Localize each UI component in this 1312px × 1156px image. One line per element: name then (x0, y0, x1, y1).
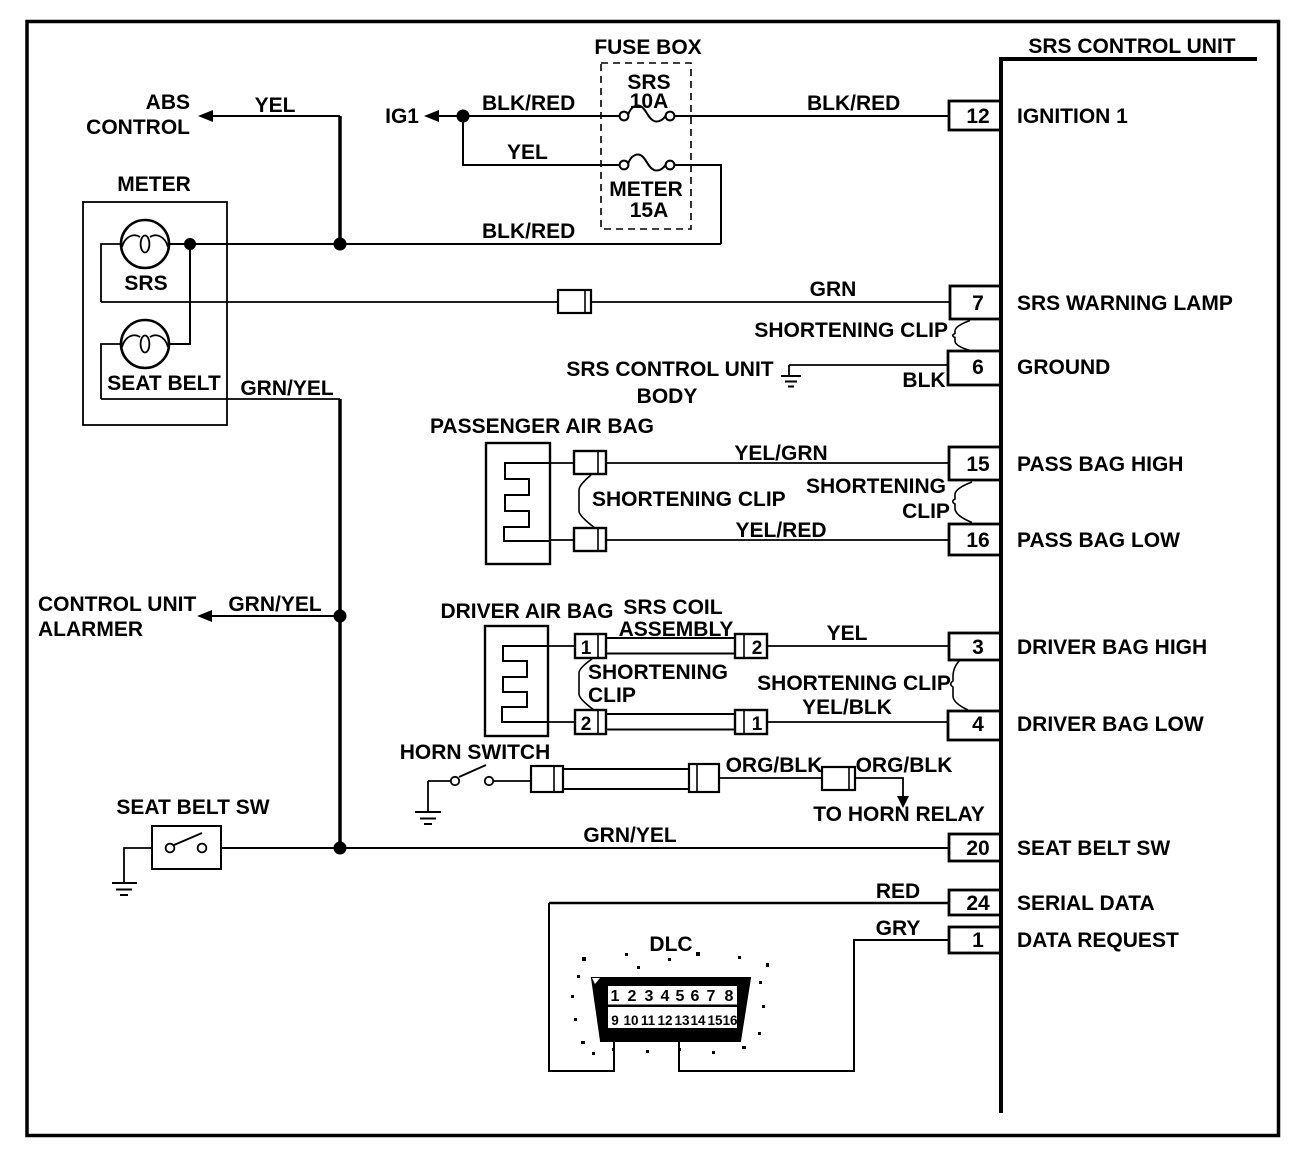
svg-text:YEL/GRN: YEL/GRN (734, 442, 827, 465)
connector on GRN wire (558, 290, 591, 313)
connector horn cable left (531, 766, 563, 792)
shortening clip pin15-pin16 (953, 482, 972, 523)
horn switch contacts (428, 765, 531, 785)
svg-text:20: 20 (966, 837, 989, 860)
svg-text:YEL: YEL (507, 141, 548, 164)
pin 7 SRS WARNING LAMP (950, 286, 1233, 319)
pin 3 DRIVER BAG HIGH (949, 633, 1207, 660)
svg-text:BLK/RED: BLK/RED (482, 92, 575, 115)
wire driver bag low (548, 721, 575, 723)
svg-text:METER: METER (117, 173, 191, 196)
svg-text:DRIVER AIR BAG: DRIVER AIR BAG (440, 600, 613, 623)
wire YEL/GRN to pin 15 (550, 462, 949, 464)
svg-text:PASSENGER AIR BAG: PASSENGER AIR BAG (430, 415, 654, 438)
fuse METER 15A (609, 155, 683, 222)
svg-text:GRN/YEL: GRN/YEL (583, 824, 677, 847)
svg-text:PASS BAG LOW: PASS BAG LOW (1017, 529, 1180, 552)
svg-text:SERIAL DATA: SERIAL DATA (1017, 892, 1155, 915)
connector 1 driver bag high (575, 634, 606, 659)
svg-text:CLIP: CLIP (902, 500, 950, 523)
svg-text:YEL: YEL (255, 94, 296, 117)
svg-text:GROUND: GROUND (1017, 356, 1110, 379)
svg-text:SRS: SRS (124, 272, 167, 295)
arrow to alarmer (197, 610, 212, 622)
junction IG1 (457, 110, 470, 123)
svg-text:7: 7 (707, 988, 716, 1005)
wire GRN/YEL to alarmer (210, 615, 340, 617)
svg-text:10: 10 (623, 1013, 638, 1028)
shortening clip passenger (579, 475, 595, 528)
svg-text:6: 6 (972, 356, 984, 379)
svg-text:5: 5 (676, 988, 685, 1005)
svg-text:IGNITION 1: IGNITION 1 (1017, 105, 1128, 128)
svg-text:15: 15 (966, 453, 990, 476)
wire GRN/YEL to pin 20 (221, 847, 949, 849)
svg-text:12: 12 (657, 1013, 672, 1028)
junction YEL drop (334, 238, 347, 251)
svg-text:CONTROL UNIT: CONTROL UNIT (38, 593, 196, 616)
SRS coil cable low (606, 714, 735, 730)
svg-text:SHORTENING CLIP: SHORTENING CLIP (754, 319, 948, 342)
wire YEL to pin 3 (767, 645, 949, 647)
scan speckles around DLC (571, 952, 769, 1055)
pin 6 GROUND (948, 351, 1110, 385)
svg-text:SRS WARNING LAMP: SRS WARNING LAMP (1017, 292, 1233, 315)
svg-text:SHORTENING: SHORTENING (806, 475, 946, 498)
svg-text:HORN SWITCH: HORN SWITCH (400, 741, 551, 764)
svg-text:DRIVER BAG HIGH: DRIVER BAG HIGH (1017, 636, 1207, 659)
wire GRN/YEL trunk vertical (338, 399, 342, 848)
wire SEAT BELT lamp left leg (101, 344, 121, 399)
driver air bag squib (502, 646, 548, 722)
passenger air bag housing (486, 443, 550, 564)
junction meter lamps (184, 238, 196, 250)
arrow to IG1 (424, 110, 439, 122)
svg-text:6: 6 (691, 988, 700, 1005)
svg-text:DATA REQUEST: DATA REQUEST (1017, 929, 1179, 952)
svg-text:1: 1 (972, 929, 984, 952)
connector 1 coil low (735, 710, 767, 735)
svg-text:12: 12 (966, 105, 989, 128)
svg-text:CONTROL: CONTROL (86, 116, 190, 139)
svg-text:8: 8 (725, 988, 734, 1005)
pin 16 PASS BAG LOW (949, 524, 1180, 555)
wire ORG/BLK to horn relay (855, 778, 903, 799)
wire BLK/RED bus (meter to fuse corner) (169, 243, 721, 245)
wire BLK/RED junction to SRS fuse (463, 115, 620, 117)
svg-text:SEAT BELT: SEAT BELT (107, 372, 221, 395)
connector pass bag high (574, 451, 606, 474)
driver air bag housing (485, 626, 548, 736)
wire METER fuse to BLK/RED bus (674, 165, 721, 244)
DLC connector (592, 978, 750, 1041)
wire IG1 to junction (437, 115, 458, 117)
svg-text:3: 3 (972, 636, 984, 659)
svg-text:BLK: BLK (902, 369, 945, 392)
svg-text:ORG/BLK: ORG/BLK (856, 754, 953, 777)
SRS coil cable horn (563, 769, 689, 789)
svg-text:14: 14 (690, 1013, 706, 1028)
svg-text:SRS COIL: SRS COIL (623, 596, 722, 619)
svg-text:SEAT BELT SW: SEAT BELT SW (116, 796, 269, 819)
pin 4 DRIVER BAG LOW (948, 711, 1204, 740)
shortening clip driver (579, 659, 594, 710)
svg-text:TO HORN RELAY: TO HORN RELAY (813, 803, 985, 826)
svg-text:DRIVER BAG LOW: DRIVER BAG LOW (1017, 713, 1204, 736)
svg-text:16: 16 (722, 1013, 738, 1028)
svg-text:BLK/RED: BLK/RED (807, 92, 900, 115)
ground horn switch (415, 781, 441, 824)
connector horn cable right (689, 764, 719, 792)
svg-text:GRY: GRY (876, 917, 921, 940)
svg-text:11: 11 (641, 1013, 656, 1028)
wire RED to pin 24 (549, 902, 949, 905)
passenger air bag squib (504, 463, 550, 541)
svg-text:7: 7 (972, 292, 984, 315)
svg-text:YEL/RED: YEL/RED (735, 519, 826, 542)
arrow to horn relay (897, 796, 909, 808)
wire YEL junction to METER fuse (463, 116, 620, 165)
seat belt switch (152, 826, 221, 869)
junction seat belt (334, 842, 347, 855)
fuse SRS 10A (620, 71, 675, 122)
svg-text:SHORTENING: SHORTENING (588, 661, 728, 684)
wire DLC pin9 leg (549, 903, 614, 1071)
svg-text:3: 3 (645, 988, 654, 1005)
pin 15 PASS BAG HIGH (949, 447, 1183, 480)
svg-text:IG1: IG1 (385, 105, 419, 128)
wire GRN to pin 7 (101, 301, 949, 303)
svg-text:24: 24 (966, 892, 990, 915)
svg-text:1: 1 (581, 638, 592, 659)
wire SRS lamp left leg (101, 244, 121, 302)
svg-text:4: 4 (661, 988, 670, 1005)
svg-text:PASS BAG HIGH: PASS BAG HIGH (1017, 453, 1183, 476)
SRS coil cable high (606, 638, 735, 654)
wire GRN/YEL from meter (101, 398, 340, 400)
svg-text:15A: 15A (630, 199, 669, 222)
wire driver bag high (548, 645, 575, 647)
wire seat belt lamp to junction (168, 244, 190, 344)
svg-text:METER: METER (609, 178, 683, 201)
svg-text:FUSE BOX: FUSE BOX (594, 36, 701, 59)
svg-text:BODY: BODY (637, 385, 698, 408)
SRS control unit outline (1001, 59, 1257, 1113)
svg-text:BLK/RED: BLK/RED (482, 220, 575, 243)
connector 2 driver bag low (575, 710, 606, 735)
pin 20 SEAT BELT SW (949, 834, 1170, 861)
connector ORG/BLK (822, 767, 855, 790)
svg-text:ABS: ABS (146, 91, 190, 114)
ground seat belt sw (112, 883, 137, 895)
lamp SRS (121, 220, 169, 295)
wire seat belt sw left leg (124, 848, 152, 883)
shortening clip pin7-pin6 (953, 321, 970, 351)
wire BLK to pin 6 (789, 364, 949, 366)
svg-text:SRS CONTROL UNIT: SRS CONTROL UNIT (1028, 35, 1235, 58)
svg-text:13: 13 (674, 1013, 690, 1028)
ground SRS control unit body (781, 365, 801, 387)
connector 2 coil high (735, 634, 767, 659)
svg-text:2: 2 (752, 638, 763, 659)
wire YEL/RED to pin 16 (550, 539, 949, 541)
shortening clip pin3-pin4 (951, 661, 968, 710)
svg-text:1: 1 (752, 714, 763, 735)
svg-text:4: 4 (972, 713, 984, 736)
svg-text:SEAT BELT SW: SEAT BELT SW (1017, 837, 1170, 860)
svg-text:GRN/YEL: GRN/YEL (228, 593, 322, 616)
connector pass bag low (574, 528, 606, 551)
svg-text:YEL/BLK: YEL/BLK (802, 696, 892, 719)
svg-text:10A: 10A (630, 90, 669, 113)
svg-text:DLC: DLC (649, 933, 692, 956)
wire YEL to ABS CONTROL (211, 115, 340, 117)
svg-text:SHORTENING CLIP: SHORTENING CLIP (757, 672, 951, 695)
svg-text:9: 9 (611, 1013, 619, 1028)
svg-text:GRN: GRN (810, 278, 857, 301)
arrow to ABS CONTROL (198, 110, 213, 122)
svg-text:YEL: YEL (827, 622, 868, 645)
svg-text:15: 15 (707, 1013, 723, 1028)
wire ORG/BLK horn (719, 777, 822, 779)
svg-text:SHORTENING CLIP: SHORTENING CLIP (592, 488, 786, 511)
pin 1 DATA REQUEST (949, 927, 1179, 953)
svg-text:ALARMER: ALARMER (38, 618, 143, 641)
svg-text:16: 16 (966, 529, 989, 552)
svg-text:CLIP: CLIP (588, 684, 636, 707)
svg-text:SRS CONTROL UNIT: SRS CONTROL UNIT (566, 358, 773, 381)
svg-text:2: 2 (628, 988, 637, 1005)
wire YEL/BLK to pin 4 (767, 721, 948, 723)
wire SRS fuse to pin 12 (674, 115, 949, 117)
lamp SEAT BELT (107, 320, 221, 395)
pin 24 SERIAL DATA (949, 890, 1155, 915)
junction alarmer (334, 610, 347, 623)
svg-text:GRN/YEL: GRN/YEL (240, 377, 334, 400)
wire vertical YEL drop (338, 116, 342, 244)
svg-text:2: 2 (581, 714, 592, 735)
svg-text:ORG/BLK: ORG/BLK (726, 754, 823, 777)
svg-text:RED: RED (876, 880, 920, 903)
pin 12 IGNITION 1 (949, 101, 1128, 130)
svg-text:1: 1 (611, 988, 620, 1005)
